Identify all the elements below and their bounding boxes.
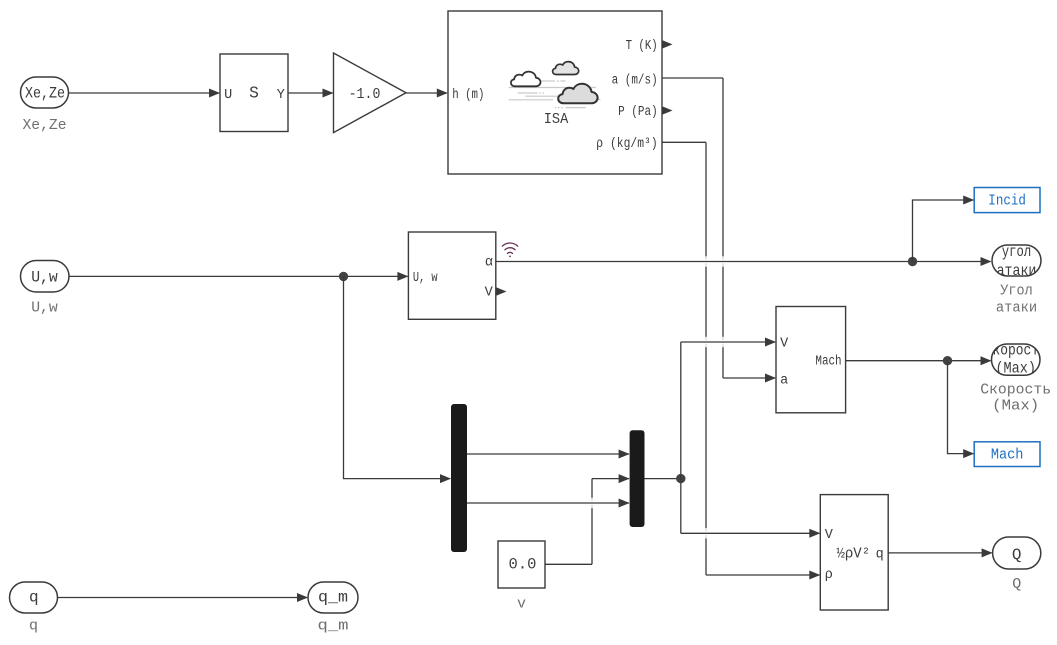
svg-text:T (K): T (K) — [626, 39, 658, 54]
svg-text:Mach: Mach — [991, 447, 1024, 464]
svg-text:ISA: ISA — [544, 111, 569, 128]
wire a to Mach — [662, 78, 776, 383]
svg-text:V: V — [780, 336, 789, 351]
wire U,w to block — [69, 272, 408, 281]
output arrow V of U,w — [496, 287, 507, 296]
block half-rho-V2 — [820, 495, 888, 610]
svg-text:U: U — [224, 88, 232, 103]
svg-text:ρ: ρ — [825, 568, 833, 583]
svg-text:-1.0: -1.0 — [349, 86, 381, 103]
svg-text:Q: Q — [1012, 546, 1022, 564]
goto tag Incid — [974, 188, 1040, 213]
atmosphere block ISA — [448, 11, 662, 174]
label Ugol ataki — [996, 283, 1037, 317]
svg-text:a: a — [780, 374, 788, 389]
svg-text:U, w: U, w — [413, 271, 438, 286]
wire rho to dynamic pressure — [662, 142, 820, 579]
svg-text:(Max): (Max) — [992, 398, 1039, 415]
svg-text:a (m/s): a (m/s) — [612, 73, 658, 88]
label Skorost (Max) — [980, 382, 1051, 415]
svg-text:ρ (kg/m³): ρ (kg/m³) — [596, 137, 657, 152]
signal logging badge — [502, 243, 517, 257]
wire demux out2 to mux — [467, 499, 630, 508]
wire Mach to outport — [846, 356, 992, 365]
wire alpha to outport — [496, 257, 992, 266]
svg-text:Xe,Ze: Xe,Ze — [23, 117, 67, 134]
svg-text:h (m): h (m) — [452, 88, 484, 103]
svg-text:½ρV²: ½ρV² — [836, 547, 870, 563]
outport Q — [993, 537, 1041, 569]
svg-text:q_m: q_m — [318, 618, 349, 635]
wire gain to ISA — [406, 89, 448, 98]
mux M1 — [630, 430, 645, 527]
demux D1 — [451, 404, 467, 552]
svg-text:Скорость: Скорость — [980, 382, 1051, 399]
svg-text:угол: угол — [1002, 243, 1031, 261]
junction Mach wire — [943, 356, 952, 365]
wire 0.0 to mux — [545, 474, 630, 564]
inport Xe,Ze — [21, 77, 69, 108]
output arrow T (K) — [662, 40, 673, 49]
svg-text:S: S — [249, 85, 259, 103]
wire S-block to gain — [288, 89, 334, 98]
wire to Incid goto — [913, 196, 975, 262]
gain -1.0 — [334, 53, 407, 133]
wire demux out1 to mux — [467, 450, 630, 459]
constant 0.0 — [498, 541, 545, 588]
wire q to outport Q — [888, 548, 992, 557]
S-function block S1 — [220, 54, 288, 132]
svg-text:V: V — [485, 285, 494, 300]
wire mux out — [645, 478, 681, 480]
inport q — [10, 582, 58, 613]
svg-text:Xe,Ze: Xe,Ze — [25, 84, 65, 102]
svg-text:V: V — [825, 528, 834, 543]
wire Xe,Ze to S-block — [69, 89, 221, 98]
svg-text:Угол: Угол — [1000, 283, 1032, 300]
svg-text:U,w: U,w — [31, 300, 58, 317]
junction on U,w wire — [339, 272, 348, 281]
svg-text:P (Pa): P (Pa) — [618, 105, 658, 120]
svg-text:0.0: 0.0 — [509, 555, 537, 573]
svg-text:q: q — [876, 548, 884, 563]
output arrow P (Pa) — [662, 106, 673, 115]
svg-text:q: q — [29, 589, 39, 607]
svg-text:Incid: Incid — [988, 193, 1026, 210]
svg-text:Q: Q — [1012, 576, 1021, 593]
svg-text:q: q — [29, 618, 38, 635]
inport U,w — [21, 261, 70, 293]
wire to Mach goto — [948, 361, 975, 458]
outport Skorost (Max) — [985, 341, 1047, 377]
svg-text:атаки: атаки — [997, 262, 1037, 280]
wire q to q_m — [58, 593, 309, 602]
wire V to dynamic pressure — [681, 479, 821, 538]
junction on alpha wire — [908, 257, 917, 266]
svg-text:Mach: Mach — [815, 355, 841, 370]
outport Ugol ataki — [992, 243, 1041, 280]
cloud icon — [509, 62, 601, 108]
svg-text:v: v — [517, 596, 526, 613]
svg-text:атаки: атаки — [996, 300, 1037, 317]
block Mach — [776, 307, 846, 413]
svg-text:α: α — [485, 255, 493, 270]
svg-text:U,w: U,w — [31, 269, 58, 287]
svg-text:q_m: q_m — [318, 589, 348, 607]
svg-text:Y: Y — [277, 88, 285, 103]
goto tag Mach — [974, 442, 1040, 467]
outport q_m — [308, 582, 358, 613]
wire V to Mach — [681, 338, 776, 479]
wire junction to demux — [344, 276, 452, 483]
junction mux out — [676, 474, 685, 483]
subsystem U,w — [408, 232, 495, 319]
